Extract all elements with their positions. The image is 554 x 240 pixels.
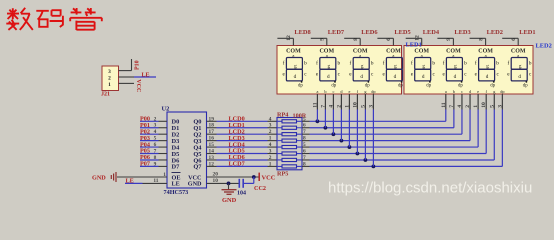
- svg-text:d: d: [294, 74, 297, 80]
- svg-text:LE: LE: [172, 181, 180, 188]
- svg-text:2: 2: [269, 155, 272, 161]
- svg-text:12: 12: [415, 35, 421, 41]
- svg-text:b: b: [529, 60, 532, 66]
- svg-text:7: 7: [320, 105, 326, 108]
- svg-text:5: 5: [154, 136, 157, 142]
- segment pin 1 (e) of LED2: [477, 94, 479, 110]
- junction dot at LED1 segment pin row 7: [364, 158, 368, 162]
- svg-text:LED3: LED3: [454, 29, 470, 36]
- svg-text:7: 7: [303, 155, 306, 161]
- svg-text:3: 3: [108, 69, 111, 75]
- svg-text:9: 9: [154, 161, 157, 167]
- svg-text:g: g: [294, 63, 297, 69]
- svg-text:LED2: LED2: [536, 43, 552, 50]
- svg-text:1: 1: [344, 105, 350, 108]
- svg-text:J21: J21: [101, 91, 110, 97]
- svg-text:VCC: VCC: [262, 175, 276, 182]
- svg-text:D7: D7: [172, 164, 181, 171]
- svg-text:8: 8: [478, 38, 484, 41]
- svg-text:LED7: LED7: [328, 29, 345, 36]
- svg-text:LCD7: LCD7: [229, 161, 245, 168]
- svg-text:dp: dp: [500, 89, 504, 94]
- wire LED2 segment pin 5 vertical (corner bend): [477, 110, 479, 148]
- svg-text:LED6: LED6: [361, 29, 378, 36]
- svg-text:e: e: [477, 89, 479, 94]
- svg-text:Q7: Q7: [193, 164, 202, 171]
- svg-text:6: 6: [303, 123, 306, 129]
- svg-text:5: 5: [360, 105, 366, 108]
- svg-text:d: d: [518, 74, 521, 80]
- wire LED1 segment pin 5 vertical: [348, 110, 350, 148]
- svg-text:f: f: [411, 59, 413, 66]
- svg-text:LED1: LED1: [406, 42, 422, 49]
- wire U2 pin 20 (VCC): [207, 176, 259, 178]
- svg-text:2: 2: [465, 105, 471, 108]
- svg-text:g: g: [394, 63, 397, 69]
- svg-text:18: 18: [209, 123, 215, 129]
- svg-text:2: 2: [269, 129, 272, 135]
- svg-text:16: 16: [209, 136, 215, 142]
- svg-text:e: e: [348, 89, 350, 94]
- COM pin 8 of LED2: [470, 37, 486, 39]
- svg-text:12: 12: [286, 35, 292, 41]
- svg-text:3: 3: [269, 149, 272, 155]
- segment pin 1 (e) of LED1: [348, 94, 350, 110]
- wire U2 pin 15 to RP pin 4, net LCD4: [207, 146, 217, 148]
- svg-text:dp: dp: [523, 83, 528, 88]
- bus wire row 8: RP pin 8 to displays: [302, 165, 310, 167]
- wire LED1 segment pin 3 vertical: [332, 110, 334, 135]
- display module LED1 (4-digit 7-segment) body: [277, 46, 402, 95]
- IC U2 74HC573 body: [167, 112, 207, 188]
- wire U2 pin 14 to RP pin 3, net LCD5: [207, 153, 217, 155]
- COM pin 6 of LED2: [502, 37, 518, 39]
- svg-text:f: f: [475, 59, 477, 66]
- svg-text:1: 1: [108, 82, 111, 88]
- svg-text:7: 7: [303, 129, 306, 135]
- segment pin 10 (f) of LED2: [485, 94, 487, 110]
- segment pin 4 (c) of LED1: [332, 94, 334, 110]
- junction dot at LED1 segment pin row 6: [356, 152, 360, 156]
- svg-text:17: 17: [209, 129, 215, 135]
- svg-text:11: 11: [312, 102, 318, 107]
- segment pin 2 (d) of LED2: [469, 94, 471, 110]
- svg-text:g: g: [422, 63, 425, 69]
- wire U2 pin 12 to RP pin 1, net LCD7: [207, 165, 217, 167]
- svg-text:4: 4: [457, 105, 463, 108]
- svg-text:4: 4: [154, 129, 157, 135]
- svg-text:f: f: [508, 59, 510, 66]
- segment pin 5 (g) of LED2: [493, 94, 495, 110]
- ground symbol at U2 pin 1 (OE): [111, 172, 116, 182]
- svg-text:g: g: [328, 63, 331, 69]
- svg-text:b: b: [453, 89, 455, 94]
- svg-text:10: 10: [481, 102, 487, 108]
- capacitor CC2 104: [238, 179, 240, 188]
- bus wire row 5: RP pin 5 to displays: [302, 146, 310, 148]
- svg-text:1: 1: [163, 172, 166, 178]
- svg-text:f: f: [383, 59, 385, 66]
- wire U2 pin 10 (GND): [207, 182, 239, 184]
- svg-text:U2: U2: [162, 106, 170, 113]
- title text 数码管 (red heading): [6, 8, 102, 30]
- wire GND to U2 pin 1: [117, 176, 167, 178]
- svg-text:c: c: [332, 89, 334, 94]
- svg-text:3: 3: [368, 105, 374, 108]
- bus wire row 4: RP pin 8 to displays: [302, 140, 310, 142]
- junction dot at LED1 segment pin row 5: [348, 145, 352, 149]
- junction dot at LED1 segment pin row 4: [340, 139, 344, 143]
- resistor element row 3 in RP4: [277, 133, 302, 135]
- display module LED2 (4-digit 7-segment) body: [404, 46, 533, 95]
- svg-text:1: 1: [473, 105, 479, 108]
- wire LED2 segment pin 2 vertical (corner bend): [453, 110, 455, 128]
- svg-text:13: 13: [209, 155, 215, 161]
- segment pin 3 (dp) of LED1: [372, 94, 374, 110]
- svg-text:3: 3: [497, 105, 503, 108]
- wire J21 pin1 to VCC: [119, 82, 135, 84]
- svg-text:RP4: RP4: [277, 112, 288, 119]
- svg-text:a: a: [316, 89, 318, 94]
- svg-text:1: 1: [269, 161, 272, 167]
- svg-text:3: 3: [269, 123, 272, 129]
- wire LED2 segment pin 6 vertical (corner bend): [485, 110, 487, 154]
- svg-text:f: f: [283, 59, 285, 66]
- svg-text:4: 4: [269, 116, 272, 122]
- resistor element row 7 in RP5: [277, 159, 302, 161]
- wire LED2 segment pin 8 vertical (corner bend): [501, 110, 503, 167]
- svg-text:d: d: [486, 74, 489, 80]
- wire LE to U2 pin 11: [125, 182, 143, 184]
- svg-text:10: 10: [213, 178, 219, 184]
- segment pin 4 (c) of LED2: [461, 94, 463, 110]
- bus wire row 6: RP pin 6 to displays: [302, 153, 310, 155]
- svg-text:8: 8: [154, 155, 157, 161]
- svg-text:19: 19: [209, 116, 215, 122]
- COM pin 6 of LED1: [377, 37, 393, 39]
- bus wire row 3: RP pin 7 to displays: [302, 133, 310, 135]
- svg-text:9: 9: [320, 38, 326, 41]
- svg-text:2: 2: [336, 105, 342, 108]
- svg-text:7: 7: [449, 105, 455, 108]
- svg-text:dp: dp: [365, 83, 370, 88]
- wire LED1 segment pin 7 vertical: [364, 110, 366, 160]
- svg-text:8: 8: [353, 38, 359, 41]
- svg-text:VCC: VCC: [135, 79, 141, 92]
- svg-text:LE: LE: [142, 72, 150, 78]
- svg-text:11: 11: [153, 178, 158, 184]
- connector J21 (3-pin header): [102, 66, 119, 91]
- svg-text:5: 5: [303, 142, 306, 148]
- digit 2 of LED2: [442, 49, 467, 89]
- svg-text:dp: dp: [490, 83, 495, 88]
- segment pin 5 (g) of LED1: [364, 94, 366, 110]
- svg-text:4: 4: [269, 142, 272, 148]
- svg-text:6: 6: [303, 149, 306, 155]
- svg-text:104: 104: [237, 191, 246, 197]
- svg-text:GND: GND: [92, 174, 106, 181]
- svg-text:LED1: LED1: [519, 29, 535, 36]
- resistor element row 4 in RP4: [277, 140, 302, 142]
- svg-text:b: b: [496, 60, 499, 66]
- svg-text:b: b: [464, 60, 467, 66]
- wire LED2 segment pin 3 vertical (corner bend): [461, 110, 463, 135]
- svg-text:g: g: [486, 63, 489, 69]
- wire J21 pin3 to net P10: [119, 70, 132, 72]
- svg-text:4: 4: [328, 105, 334, 108]
- wire LED1 segment pin 8 vertical: [372, 110, 374, 167]
- digit 2 of LED1: [316, 49, 341, 89]
- wire U2 pin 13 to RP pin 2, net LCD6: [207, 159, 217, 161]
- svg-text:a: a: [445, 89, 447, 94]
- wire U2 pin 19 to RP pin 4, net LCD0: [207, 120, 217, 122]
- svg-text:dp: dp: [371, 89, 375, 94]
- digit 4 of LED1: [382, 49, 407, 89]
- svg-text:5: 5: [489, 105, 495, 108]
- segment pin 11 (a) of LED1: [316, 94, 318, 110]
- resistor element row 6 in RP5: [277, 153, 302, 155]
- svg-text:1: 1: [269, 136, 272, 142]
- junction dot at LED1 segment pin row 3: [332, 132, 336, 136]
- svg-text:LED2: LED2: [487, 29, 503, 36]
- junction dot on VCC wire: [252, 175, 256, 179]
- junction dot at LED1 segment pin row 1: [316, 119, 320, 123]
- bus wire row 1: RP pin 5 to displays: [302, 120, 310, 122]
- svg-text:10: 10: [352, 102, 358, 108]
- svg-text:b: b: [432, 60, 435, 66]
- svg-text:74HC573: 74HC573: [164, 189, 189, 196]
- COM pin 9 of LED2: [437, 37, 453, 39]
- svg-text:d: d: [422, 74, 425, 80]
- wire LED1 segment pin 1 vertical: [316, 110, 318, 122]
- power port VCC (bar): [258, 173, 260, 181]
- svg-text:3: 3: [154, 123, 157, 129]
- svg-text:b: b: [304, 60, 307, 66]
- COM pin 9 of LED1: [311, 37, 327, 39]
- wire LED2 segment pin 1 vertical (corner bend): [445, 110, 447, 122]
- segment pin 2 (d) of LED1: [340, 94, 342, 110]
- svg-text:8: 8: [303, 136, 306, 142]
- svg-text:dp: dp: [331, 83, 336, 88]
- svg-text:b: b: [324, 89, 326, 94]
- svg-text:f: f: [350, 59, 352, 66]
- resistor element row 2 in RP4: [277, 127, 302, 129]
- svg-text:d: d: [454, 74, 457, 80]
- digit 1 of LED1: [282, 49, 307, 89]
- junction dot on GND wire: [227, 182, 231, 186]
- svg-text:8: 8: [303, 161, 306, 167]
- svg-text:GND: GND: [222, 197, 237, 204]
- svg-text:c: c: [461, 89, 463, 94]
- svg-text:6: 6: [386, 38, 392, 41]
- svg-text:f: f: [316, 59, 318, 66]
- wire U2 pin 18 to RP pin 3, net LCD1: [207, 127, 217, 129]
- svg-text:5: 5: [303, 116, 306, 122]
- digit 1 of LED2: [411, 49, 436, 89]
- digit 3 of LED1: [349, 49, 374, 89]
- svg-text:g: g: [519, 63, 522, 69]
- segment pin 7 (b) of LED2: [453, 94, 455, 110]
- svg-text:9: 9: [446, 38, 452, 41]
- wire U2 pin 16 to RP pin 1, net LCD3: [207, 140, 217, 142]
- svg-text:g: g: [361, 63, 364, 69]
- svg-text:2: 2: [108, 76, 111, 82]
- segment pin 7 (b) of LED1: [324, 94, 326, 110]
- digit 3 of LED2: [475, 49, 500, 89]
- svg-text:g: g: [454, 63, 457, 69]
- segment pin 11 (a) of LED2: [445, 94, 447, 110]
- svg-text:6: 6: [154, 142, 157, 148]
- COM pin 12 of LED2: [406, 37, 422, 39]
- svg-text:P10: P10: [134, 60, 140, 70]
- svg-text:CC2: CC2: [254, 185, 266, 192]
- resistor element row 8 in RP5: [277, 165, 302, 167]
- resistor pack RP4 (top 4) and RP5 (bottom 4) body: [277, 118, 302, 170]
- svg-text:dp: dp: [298, 83, 303, 88]
- svg-text:b: b: [371, 60, 374, 66]
- svg-text:dp: dp: [426, 83, 431, 88]
- resistor element row 5 in RP5: [277, 146, 302, 148]
- svg-text:2: 2: [154, 116, 157, 122]
- wire LED2 segment pin 7 vertical (corner bend): [493, 110, 495, 160]
- resistor element row 1 in RP4: [277, 120, 302, 122]
- COM pin 12 of LED1: [277, 37, 293, 39]
- bus wire row 2: RP pin 6 to displays: [302, 127, 310, 129]
- segment pin 3 (dp) of LED2: [501, 94, 503, 110]
- svg-text:11: 11: [441, 102, 447, 107]
- svg-text:15: 15: [209, 142, 215, 148]
- ground symbol GND (below C2): [228, 183, 230, 189]
- wire LED1 segment pin 6 vertical: [356, 110, 358, 154]
- svg-text:f: f: [443, 59, 445, 66]
- junction dot at LED1 segment pin row 8: [372, 165, 376, 169]
- bus wire row 7: RP pin 7 to displays: [302, 159, 310, 161]
- svg-text:12: 12: [209, 161, 215, 167]
- junction dot at LED1 segment pin row 2: [324, 126, 328, 130]
- svg-text:d: d: [360, 74, 363, 80]
- svg-text:LED4: LED4: [423, 29, 440, 36]
- svg-text:https://blog.csdn.net/xiaoshix: https://blog.csdn.net/xiaoshixiu: [328, 180, 532, 197]
- wire U2 pin 17 to RP pin 2, net LCD2: [207, 133, 217, 135]
- svg-text:dp: dp: [398, 83, 403, 88]
- svg-text:20: 20: [213, 172, 219, 178]
- svg-text:d: d: [327, 74, 330, 80]
- digit 4 of LED2: [507, 49, 532, 89]
- svg-text:LED5: LED5: [394, 29, 410, 36]
- wire LED2 segment pin 4 vertical (corner bend): [469, 110, 471, 141]
- svg-text:LED8: LED8: [294, 29, 310, 36]
- svg-text:14: 14: [209, 149, 215, 155]
- wire LED1 segment pin 2 vertical: [324, 110, 326, 128]
- wire LED1 segment pin 4 vertical: [340, 110, 342, 141]
- svg-text:6: 6: [511, 38, 517, 41]
- svg-text:dp: dp: [458, 83, 463, 88]
- svg-text:d: d: [394, 74, 397, 80]
- segment pin 10 (f) of LED1: [356, 94, 358, 110]
- svg-text:b: b: [338, 60, 341, 66]
- svg-text:RP5: RP5: [277, 171, 288, 178]
- svg-text:7: 7: [154, 149, 157, 155]
- wire J21 pin2, net LE: [119, 76, 135, 78]
- svg-text:GND: GND: [188, 181, 202, 188]
- COM pin 8 of LED1: [344, 37, 360, 39]
